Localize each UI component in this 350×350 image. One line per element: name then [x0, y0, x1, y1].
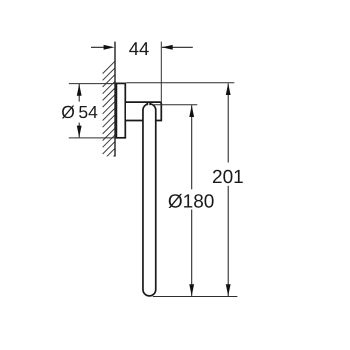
- svg-text:Ø180: Ø180: [168, 191, 214, 212]
- wall plate (side view): [116, 83, 125, 137]
- dimension diameter54 line upper: [78, 84, 80, 102]
- extension line diameter54 top: [69, 83, 116, 85]
- arrowhead 201 up: [226, 83, 231, 95]
- neck left line: [146, 102, 148, 105]
- neck gap eraser: [148, 103, 150, 104]
- extension line bottom (ring lowest point): [153, 296, 238, 298]
- arrowhead 201 down: [226, 284, 231, 296]
- dimension 201 line lower: [227, 186, 229, 296]
- svg-text:201: 201: [212, 167, 244, 188]
- holder arm outline: [126, 102, 161, 120]
- extension line 44 right: [160, 42, 162, 102]
- dimension diameter180 line: [191, 105, 193, 189]
- wall line: [114, 42, 116, 157]
- extension line diameter54 bottom: [69, 137, 116, 139]
- dimension diameter180 line lower: [191, 210, 193, 297]
- dimension 44 line left: [91, 46, 111, 48]
- towel ring (side silhouette, stadium shape): [143, 104, 156, 296]
- dimension diameter54 line lower: [78, 123, 80, 138]
- extension line diameter180 top: [154, 104, 198, 106]
- neck right line: [149, 102, 151, 105]
- arrowhead 44 right: [162, 45, 173, 50]
- arrowhead diameter180 up: [189, 105, 194, 117]
- svg-text:Ø 54: Ø 54: [61, 102, 98, 122]
- extension line 201 top (plate top): [126, 82, 234, 84]
- dimension 44 line right: [162, 46, 193, 48]
- wall hatching: [103, 61, 116, 168]
- arrowhead 44 left: [104, 45, 115, 50]
- arrowhead diameter54 down: [77, 126, 82, 138]
- arrowhead diameter54 up: [77, 84, 82, 96]
- arrowhead diameter180 down: [189, 284, 194, 296]
- dimension 201 line upper: [227, 83, 229, 162]
- svg-text:44: 44: [129, 38, 150, 59]
